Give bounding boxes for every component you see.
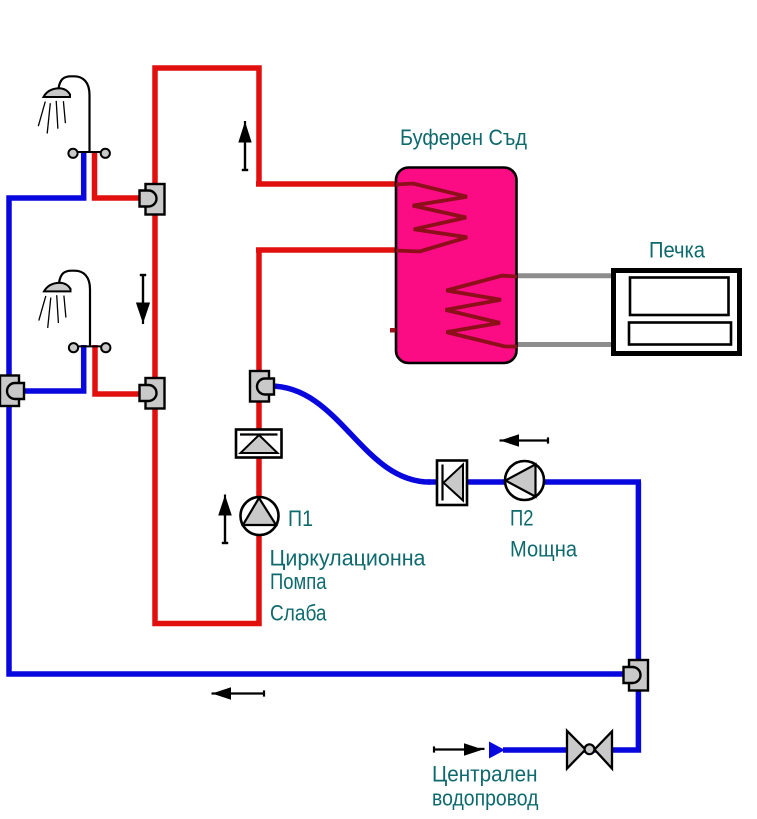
fitting F1 shower1 on red riser	[140, 184, 165, 215]
check valve CV1 above pump P1	[236, 430, 282, 458]
arrow up inside loop top	[238, 121, 251, 170]
pipe gray tank to stove upper	[515, 273, 613, 278]
fitting F2 shower2 on blue riser	[0, 376, 24, 407]
wire red to tank lower	[256, 247, 399, 253]
stove box	[614, 271, 740, 354]
svg-text:Буферен Съд: Буферен Съд	[400, 125, 527, 150]
wire blue right vertical and inlet run	[503, 482, 638, 750]
arrow left above pump P2	[500, 434, 549, 446]
wire blue cold main: shower1 down left side and bottom	[9, 151, 632, 674]
wire shower2 cold branch	[20, 345, 84, 391]
inlet nozzle blue triangle	[489, 742, 505, 759]
shower S2	[39, 271, 111, 353]
fitting F3 shower2 on red riser	[140, 378, 165, 409]
gate valve bowtie on inlet	[567, 731, 612, 769]
svg-text:Помпа: Помпа	[270, 569, 327, 594]
wire shower1 hot branch	[95, 151, 144, 198]
svg-text:П1: П1	[288, 506, 313, 531]
wire red loop main	[155, 68, 259, 624]
pipe gray tank to stove lower	[515, 342, 613, 347]
svg-text:Циркулационна: Циркулационна	[270, 545, 427, 570]
arrow left below bottom blue pipe	[212, 687, 265, 699]
buffer tank vessel	[396, 168, 517, 364]
shower S1	[38, 76, 110, 158]
pump P1	[241, 497, 279, 535]
svg-text:Централен: Централен	[432, 761, 538, 786]
arrow right at inlet	[434, 743, 485, 755]
fitting F4 bottom right on blue	[624, 660, 649, 691]
wire blue S-curve to tee	[270, 386, 430, 482]
wire blue pump P2 line	[428, 479, 641, 485]
svg-text:водопровод: водопровод	[432, 786, 539, 811]
svg-text:Слаба: Слаба	[270, 601, 327, 626]
arrow down beside red riser	[136, 275, 150, 324]
red tick on tank wall	[390, 328, 396, 333]
arrow up beside pump P1	[218, 495, 232, 544]
heating coil lower	[446, 276, 518, 347]
heating coil upper	[396, 184, 467, 252]
svg-text:Мощна: Мощна	[510, 537, 578, 562]
svg-text:П2: П2	[510, 505, 534, 530]
wire red to tank upper	[256, 181, 399, 187]
check valve CV2 before pump P2	[437, 461, 467, 506]
svg-text:Печка: Печка	[649, 238, 706, 263]
wire shower2 hot branch	[95, 345, 143, 394]
pump P2	[505, 461, 544, 500]
fitting F5 tee on red at mix point	[250, 371, 274, 402]
